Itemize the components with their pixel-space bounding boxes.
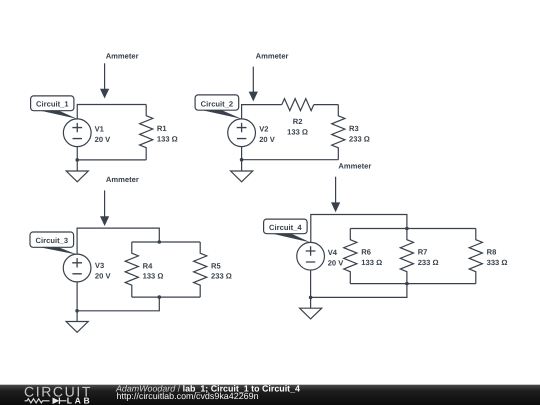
wire Circuit_1 bottom (V1 bottom to R1 bottom)	[77, 147, 146, 160]
value label R1 133 Ohm	[157, 124, 178, 143]
voltage source V4	[297, 242, 325, 270]
resistor R5	[194, 242, 207, 297]
svg-text:233 Ω: 233 Ω	[349, 134, 370, 143]
svg-text:R2: R2	[293, 117, 303, 126]
svg-text:V1: V1	[95, 125, 105, 134]
ground (Circuit_1)	[66, 160, 88, 182]
svg-text:233 Ω: 233 Ω	[211, 272, 232, 281]
wire Circuit_4 inner top rail	[350, 228, 476, 230]
svg-text:333 Ω: 333 Ω	[487, 258, 508, 267]
svg-text:R3: R3	[349, 124, 359, 133]
ammeter probe arrow (Circuit_1)	[100, 63, 109, 98]
svg-text:Circuit_2: Circuit_2	[201, 99, 234, 108]
svg-text:V4: V4	[328, 248, 338, 257]
svg-text:V3: V3	[95, 261, 104, 270]
node junction (V2 bottom / ground)	[240, 158, 244, 162]
wire Circuit_2 top left (V2 top to R2)	[242, 105, 282, 119]
ground (Circuit_4)	[300, 297, 322, 319]
callout label Circuit_2	[195, 95, 242, 119]
svg-text:20 V: 20 V	[259, 135, 276, 144]
svg-text:233 Ω: 233 Ω	[418, 258, 439, 267]
wire Circuit_4 bottom (branch to V4 bottom)	[311, 270, 407, 297]
svg-text:LAB: LAB	[67, 396, 92, 405]
svg-text:R5: R5	[211, 261, 221, 270]
svg-text:133 Ω: 133 Ω	[157, 134, 178, 143]
node junction (Circuit_4 bottom rail)	[405, 282, 409, 286]
resistor R3	[332, 105, 345, 160]
resistor R4	[125, 242, 138, 297]
svg-text:133 Ω: 133 Ω	[287, 127, 308, 136]
wire Circuit_3 inner top rail	[132, 241, 200, 243]
value label V3 20 V	[95, 261, 112, 280]
svg-text:R1: R1	[157, 124, 167, 133]
resistor R2	[282, 99, 314, 111]
value label R5 233 Ohm	[211, 261, 232, 280]
svg-text:V2: V2	[259, 125, 268, 134]
node junction (V3 bottom / ground)	[75, 309, 79, 313]
value label V1 20 V	[95, 125, 112, 144]
ammeter probe arrow (Circuit_2)	[249, 67, 258, 102]
callout label Circuit_1	[31, 96, 78, 119]
resistor R8	[469, 229, 482, 284]
svg-text:R6: R6	[361, 248, 371, 257]
voltage source V3	[63, 254, 91, 282]
resistor R1	[140, 105, 153, 160]
svg-text:R4: R4	[143, 261, 153, 270]
svg-text:Circuit_4: Circuit_4	[269, 223, 302, 232]
value label R6 133 Ohm	[361, 248, 382, 267]
svg-text:133 Ω: 133 Ω	[361, 258, 382, 267]
ammeter probe arrow (Circuit_3)	[100, 190, 109, 226]
ground (Circuit_3)	[66, 311, 88, 333]
voltage source V2	[228, 119, 256, 147]
svg-text:Circuit_1: Circuit_1	[36, 100, 69, 109]
node junction (V4 bottom / ground)	[309, 296, 313, 300]
wire Circuit_2 bottom (V2 bottom to R3 bottom)	[242, 147, 339, 160]
svg-text:R8: R8	[487, 248, 497, 257]
svg-text:R7: R7	[418, 248, 428, 257]
callout label Circuit_4	[264, 219, 311, 242]
svg-text:Ammeter: Ammeter	[106, 175, 139, 184]
callout label Circuit_3	[30, 232, 77, 255]
svg-text:20 V: 20 V	[95, 135, 112, 144]
svg-text:20 V: 20 V	[328, 258, 345, 267]
value label R4 133 Ohm	[143, 261, 164, 280]
value label V2 20 V	[259, 125, 276, 144]
svg-text:Ammeter: Ammeter	[338, 161, 371, 170]
wire Circuit_1 top (V1 top to R1 top)	[77, 105, 146, 119]
wire Circuit_3 inner bottom rail	[132, 296, 200, 298]
resistor R6	[344, 229, 357, 284]
node junction (V1 bottom / ground)	[75, 158, 79, 162]
ammeter probe arrow (Circuit_4)	[331, 177, 340, 213]
wire Circuit_3 top (V3 top to parallel branch)	[77, 228, 159, 254]
svg-text:133 Ω: 133 Ω	[143, 272, 164, 281]
wire Circuit_4 top (V4 top to parallel branch)	[311, 215, 407, 243]
voltage source V1	[63, 119, 91, 147]
wire Circuit_4 inner bottom rail	[350, 283, 476, 285]
svg-text:Ammeter: Ammeter	[256, 52, 289, 61]
svg-text:Circuit_3: Circuit_3	[36, 236, 69, 245]
value label V4 20 V	[328, 248, 345, 267]
CircuitLab logo diode symbol	[53, 398, 67, 405]
node junction (Circuit_3 top rail)	[158, 240, 162, 244]
svg-text:Ammeter: Ammeter	[106, 51, 139, 60]
CircuitLab logo resistor squiggle	[25, 399, 50, 403]
value label R7 233 Ohm	[418, 248, 439, 267]
svg-text:http://circuitlab.com/cvds9ka4: http://circuitlab.com/cvds9ka42269n	[117, 391, 259, 401]
node junction (Circuit_3 bottom rail)	[158, 295, 162, 299]
value label R2 133 Ohm	[287, 117, 308, 136]
resistor R7	[400, 229, 413, 284]
wire Circuit_3 bottom (branch to V3 bottom)	[77, 282, 159, 311]
value label R3 233 Ohm	[349, 124, 370, 143]
svg-text:20 V: 20 V	[95, 272, 112, 281]
node junction (Circuit_4 top rail)	[405, 227, 409, 231]
ground (Circuit_2)	[231, 160, 253, 182]
wire Circuit_2 top right (R2 to R3)	[314, 104, 339, 106]
value label R8 333 Ohm	[487, 248, 508, 267]
